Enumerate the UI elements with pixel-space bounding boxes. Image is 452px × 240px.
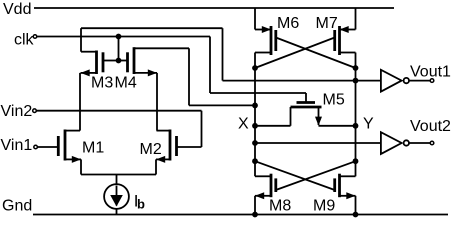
wire Y top horizontal xyxy=(81,27,223,29)
node X dot at cross couple xyxy=(252,158,258,164)
node dot M8 source at Gnd xyxy=(252,212,258,218)
svg-text:M8: M8 xyxy=(269,197,291,214)
wire Vin2 horizontal xyxy=(37,110,202,112)
terminal Vin1 xyxy=(34,145,38,149)
node X vertical xyxy=(254,53,256,177)
transistor M9 xyxy=(335,174,356,215)
wire M2 source to tail xyxy=(155,159,157,174)
node X dot at M6 drain xyxy=(252,65,258,71)
node dot M9 source at Gnd xyxy=(353,212,359,218)
node Y dot at M5 xyxy=(353,123,359,129)
node Y dot at Vout1 wire xyxy=(353,78,359,84)
wire clk to M5 gate xyxy=(210,92,306,94)
wire cross couple M6 gate to Y xyxy=(276,38,356,69)
svg-text:X: X xyxy=(238,116,249,133)
svg-text:M3: M3 xyxy=(91,75,113,92)
wire tail horizontal xyxy=(81,174,156,176)
svg-text:Vout1: Vout1 xyxy=(410,64,451,81)
inverter buffer Vout2 xyxy=(381,132,434,154)
wire M4 drain to node X xyxy=(189,104,255,106)
transistor M2 xyxy=(156,130,177,163)
inverter buffer Vout1 xyxy=(381,70,434,92)
terminal clk xyxy=(33,35,37,39)
transistor M3 xyxy=(81,51,119,77)
svg-text:Vdd: Vdd xyxy=(3,1,31,18)
transistor M1 xyxy=(58,130,81,163)
wire M4 drain vertical xyxy=(188,48,190,105)
Vdd rail xyxy=(34,7,394,9)
svg-text:Vout2: Vout2 xyxy=(410,118,451,135)
wire tail to current source xyxy=(116,175,118,185)
wire Vin2 to M2 gate xyxy=(177,146,202,148)
transistor M7 xyxy=(335,8,356,55)
node X junction with M4 wire xyxy=(252,103,258,109)
svg-text:clk: clk xyxy=(14,32,35,49)
svg-text:M7: M7 xyxy=(316,15,338,32)
wire clk vertical drop xyxy=(209,37,211,94)
node X dot at M5 xyxy=(252,123,258,129)
node X dot at Vout2 wire xyxy=(252,140,258,146)
node clk junction dot xyxy=(116,34,122,40)
Gnd rail xyxy=(33,214,448,216)
svg-text:Vin2: Vin2 xyxy=(1,103,33,120)
wire Vin1 to M1 gate xyxy=(38,146,59,148)
wire M3 source to M1 drain xyxy=(79,73,81,131)
wire Vin2 vertical xyxy=(201,111,203,147)
node Y dot at M7 drain xyxy=(353,65,359,71)
svg-text:Gnd: Gnd xyxy=(2,198,32,215)
svg-text:Y: Y xyxy=(363,115,374,132)
transistor M4 xyxy=(119,47,190,76)
svg-text:M4: M4 xyxy=(115,75,137,92)
transistor M5 xyxy=(255,93,356,126)
wire M4 source to M2 drain xyxy=(156,73,158,131)
svg-text:M1: M1 xyxy=(82,139,104,156)
wire current source to Gnd xyxy=(116,209,118,215)
node Y vertical xyxy=(355,53,357,177)
current source Ib xyxy=(104,184,129,209)
svg-text:M5: M5 xyxy=(323,92,345,109)
wire cross couple M7 gate to X xyxy=(255,38,335,69)
wire M3 drain to node Y top xyxy=(80,28,82,52)
svg-text:M2: M2 xyxy=(140,141,162,158)
wire clk horizontal xyxy=(37,36,210,38)
transistor M6 xyxy=(255,8,276,55)
node M3 M4 gate dot xyxy=(116,58,122,64)
wire cross couple M8 gate to Y xyxy=(276,161,356,190)
wire Y to Vout1 buffer xyxy=(223,80,381,82)
terminal Vin2 xyxy=(33,109,37,113)
wire M1 source to tail xyxy=(80,159,82,174)
transistor M8 xyxy=(255,174,276,215)
svg-text:b: b xyxy=(137,197,145,212)
svg-text:Vin1: Vin1 xyxy=(1,137,33,154)
svg-text:M6: M6 xyxy=(277,15,299,32)
node Y dot at cross couple xyxy=(353,158,359,164)
wire Y top vertical drop xyxy=(222,28,224,80)
svg-text:M9: M9 xyxy=(313,197,335,214)
wire X to Vout2 buffer xyxy=(255,142,381,144)
wire cross couple M9 gate to X xyxy=(255,161,335,190)
wire clk dot to M3 M4 gates xyxy=(118,37,120,61)
